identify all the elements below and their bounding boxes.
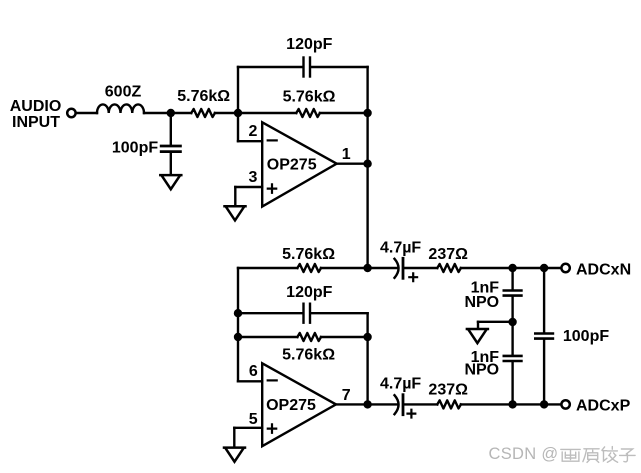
svg-text:1: 1 <box>342 146 351 163</box>
svg-text:INPUT: INPUT <box>12 114 60 131</box>
svg-text:OP275: OP275 <box>266 397 316 414</box>
svg-text:4.7µF: 4.7µF <box>380 240 421 257</box>
svg-text:2: 2 <box>249 123 258 140</box>
svg-text:3: 3 <box>249 169 258 186</box>
svg-text:OP275: OP275 <box>267 156 317 173</box>
svg-text:237Ω: 237Ω <box>428 246 468 263</box>
svg-text:120pF: 120pF <box>286 36 332 53</box>
svg-text:600Z: 600Z <box>105 84 142 101</box>
svg-text:ADCxP: ADCxP <box>576 397 631 414</box>
svg-text:CSDN @: CSDN @ <box>489 445 559 463</box>
svg-text:100pF: 100pF <box>563 328 609 345</box>
svg-text:AUDIO: AUDIO <box>10 98 62 115</box>
svg-text:4.7µF: 4.7µF <box>380 375 421 392</box>
svg-text:237Ω: 237Ω <box>428 382 468 399</box>
svg-text:5.76kΩ: 5.76kΩ <box>282 347 335 364</box>
svg-text:5.76kΩ: 5.76kΩ <box>282 246 335 263</box>
svg-text:5: 5 <box>249 411 258 428</box>
svg-text:7: 7 <box>342 387 351 404</box>
svg-text:5.76kΩ: 5.76kΩ <box>283 89 336 106</box>
svg-text:NPO: NPO <box>464 361 499 378</box>
svg-text:100pF: 100pF <box>112 140 158 157</box>
svg-text:120pF: 120pF <box>286 284 332 301</box>
svg-text:6: 6 <box>249 363 258 380</box>
svg-text:5.76kΩ: 5.76kΩ <box>177 88 230 105</box>
svg-text:NPO: NPO <box>464 294 499 311</box>
svg-text:ADCxN: ADCxN <box>576 262 631 279</box>
